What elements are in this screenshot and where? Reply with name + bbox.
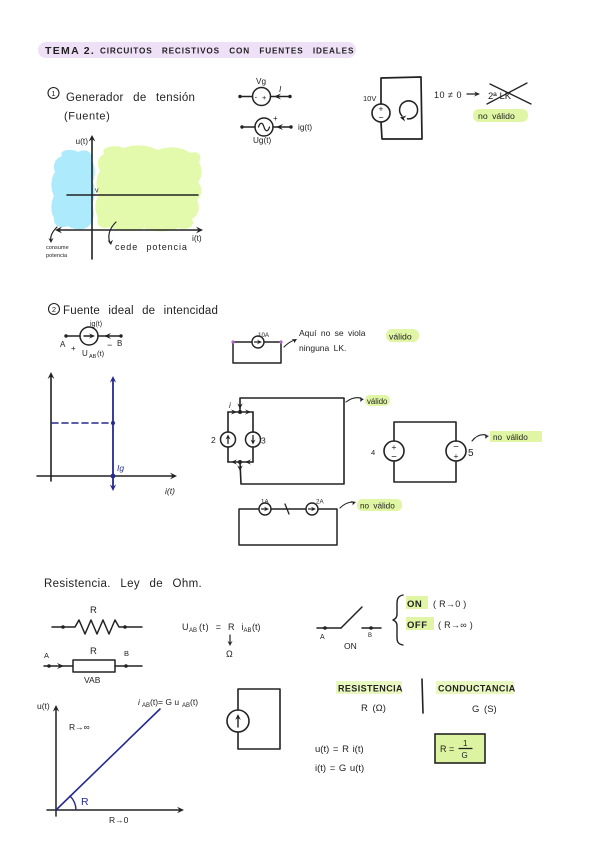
svg-text:2A: 2A bbox=[316, 499, 324, 506]
svg-text:U: U bbox=[82, 349, 88, 358]
section 1 marker bbox=[48, 88, 59, 99]
svg-text:v: v bbox=[95, 188, 99, 195]
svg-text:1A: 1A bbox=[261, 499, 269, 506]
i(t) axis bbox=[55, 227, 203, 243]
svg-text:B: B bbox=[117, 339, 122, 348]
svg-text:A: A bbox=[60, 340, 66, 349]
svg-text:B: B bbox=[368, 633, 372, 639]
current source loop circuit (bottom) bbox=[227, 689, 280, 749]
series current sources circuit bbox=[239, 504, 337, 545]
svg-text:i(t): i(t) bbox=[165, 486, 175, 496]
svg-text:AB: AB bbox=[142, 703, 150, 709]
svg-text:i(t): i(t) bbox=[192, 233, 202, 243]
svg-text:G: G bbox=[462, 751, 468, 760]
svg-text:no válido: no válido bbox=[360, 502, 395, 511]
current source 2 (up arrow) bbox=[211, 432, 236, 447]
no valido highlight 2 bbox=[472, 431, 542, 442]
svg-text:OFF: OFF bbox=[407, 620, 428, 631]
V level line bbox=[67, 188, 198, 196]
current source 1A bbox=[259, 499, 271, 516]
svg-text:2: 2 bbox=[211, 435, 216, 445]
svg-text:4: 4 bbox=[371, 448, 375, 457]
consume potencia label bbox=[46, 227, 69, 259]
svg-text:Resistencia. Ley de Ohm.: Resistencia. Ley de Ohm. bbox=[44, 578, 202, 590]
svg-text:A: A bbox=[44, 651, 49, 660]
svg-text:10V: 10V bbox=[363, 94, 376, 103]
svg-text:+: + bbox=[392, 442, 397, 452]
u(t) axis bbox=[76, 135, 96, 259]
svg-text:1: 1 bbox=[51, 89, 55, 98]
brace bbox=[393, 595, 403, 645]
svg-text:u(t) = R i(t): u(t) = R i(t) bbox=[315, 744, 364, 755]
current source symbol ig(t) bbox=[60, 321, 123, 360]
svg-text:+: + bbox=[262, 93, 267, 102]
svg-text:10A: 10A bbox=[258, 332, 270, 339]
svg-text:R→∞: R→∞ bbox=[69, 722, 90, 732]
svg-text:( R→0 ): ( R→0 ) bbox=[433, 599, 467, 609]
svg-text:R (Ω): R (Ω) bbox=[361, 703, 386, 714]
svg-text:ON: ON bbox=[407, 599, 422, 610]
heading Resistencia Ley de Ohm bbox=[44, 578, 202, 590]
svg-text:(t) = R i: (t) = R i bbox=[199, 622, 244, 632]
annotation 10 neq 0 bbox=[434, 83, 531, 104]
svg-text:potencia: potencia bbox=[46, 253, 68, 259]
svg-text:AB: AB bbox=[89, 354, 97, 360]
svg-text:1: 1 bbox=[463, 739, 468, 748]
svg-text:VAB: VAB bbox=[84, 675, 101, 685]
svg-text:−: − bbox=[391, 452, 397, 463]
cede potencia label bbox=[108, 222, 188, 252]
svg-text:Ug(t): Ug(t) bbox=[253, 136, 271, 145]
current source 3 (down arrow) bbox=[246, 432, 267, 447]
svg-text:(t): (t) bbox=[190, 697, 198, 707]
svg-text:Aquí no se viola: Aquí no se viola bbox=[299, 328, 366, 338]
svg-text:2: 2 bbox=[52, 305, 56, 314]
no valido highlight 1 bbox=[473, 109, 528, 122]
annotation aqui no se viola bbox=[284, 328, 366, 353]
switch symbol bbox=[317, 607, 381, 651]
svg-text:G (S): G (S) bbox=[472, 704, 497, 715]
svg-text:(t)= G u: (t)= G u bbox=[150, 697, 179, 707]
ON (R->0) bbox=[406, 596, 467, 610]
i = G u line (blue) bbox=[56, 697, 198, 810]
svg-text:-: - bbox=[255, 93, 258, 102]
title highlight bar bbox=[38, 42, 356, 58]
svg-text:CIRCUITOS RECISTIVOS CON FUENT: CIRCUITOS RECISTIVOS CON FUENTES IDEALES bbox=[100, 47, 354, 56]
svg-text:(t): (t) bbox=[252, 622, 261, 632]
heading Generador de tension bbox=[64, 92, 195, 123]
svg-text:−: − bbox=[107, 340, 112, 350]
svg-text:válido: válido bbox=[389, 332, 412, 342]
svg-text:i(t) = G u(t): i(t) = G u(t) bbox=[315, 763, 364, 774]
RESISTENCIA header bbox=[336, 681, 403, 714]
opposing voltage sources circuit bbox=[394, 422, 456, 482]
svg-text:cede potencia: cede potencia bbox=[115, 242, 188, 252]
CONDUCTANCIA header bbox=[436, 681, 516, 715]
svg-text:Generador de tensión: Generador de tensión bbox=[66, 92, 195, 104]
svg-text:AB: AB bbox=[189, 628, 197, 634]
svg-text:i: i bbox=[138, 697, 141, 707]
section 2 marker bbox=[49, 304, 60, 315]
OFF (R->inf) bbox=[406, 617, 473, 631]
svg-text:(Fuente): (Fuente) bbox=[64, 111, 110, 123]
svg-text:Ig: Ig bbox=[117, 463, 124, 473]
valido highlight 1 bbox=[386, 329, 419, 342]
AC source Ug(t) bbox=[240, 114, 312, 145]
svg-text:(t): (t) bbox=[97, 349, 105, 358]
Ig characteristic (blue) bbox=[52, 376, 124, 491]
svg-text:B: B bbox=[124, 649, 129, 658]
10A loop circuit bbox=[231, 332, 282, 363]
no valido highlight 3 bbox=[340, 499, 402, 511]
svg-text:A: A bbox=[320, 634, 325, 641]
svg-text:RESISTENCIA: RESISTENCIA bbox=[338, 684, 403, 694]
svg-text:( R→∞ ): ( R→∞ ) bbox=[438, 620, 473, 630]
svg-text:válido: válido bbox=[367, 397, 388, 406]
current source 2A bbox=[306, 499, 324, 516]
svg-text:CONDUCTANCIA: CONDUCTANCIA bbox=[438, 684, 516, 694]
svg-text:10 ≠ 0: 10 ≠ 0 bbox=[434, 90, 462, 100]
svg-text:+: + bbox=[71, 344, 76, 353]
svg-text:ig(t): ig(t) bbox=[298, 123, 312, 132]
svg-text:R =: R = bbox=[440, 744, 454, 754]
voltage source 4V bbox=[371, 441, 404, 463]
svg-text:AB: AB bbox=[244, 628, 252, 634]
svg-text:R: R bbox=[90, 646, 97, 657]
title text TEMA 2 bbox=[45, 45, 354, 57]
svg-text:+: + bbox=[454, 451, 459, 461]
svg-text:consume: consume bbox=[46, 245, 69, 251]
svg-text:+: + bbox=[273, 114, 278, 123]
svg-text:−: − bbox=[378, 113, 383, 123]
svg-text:Ω: Ω bbox=[226, 649, 233, 659]
svg-text:Vg: Vg bbox=[256, 77, 266, 86]
svg-text:AB: AB bbox=[182, 703, 190, 709]
resistor R (box) with VAB bbox=[44, 646, 142, 685]
svg-text:TEMA 2.: TEMA 2. bbox=[45, 45, 95, 57]
Ohm law formula bbox=[182, 622, 261, 659]
divider bbox=[422, 679, 423, 713]
u = R i formula bbox=[315, 744, 364, 774]
svg-text:I: I bbox=[279, 84, 282, 94]
R = 1/G box bbox=[435, 734, 485, 763]
svg-text:R→0: R→0 bbox=[109, 815, 129, 825]
svg-text:3: 3 bbox=[261, 436, 266, 446]
svg-text:ON: ON bbox=[344, 641, 357, 651]
svg-text:u(t): u(t) bbox=[37, 701, 50, 711]
section 2 graph axes bbox=[37, 372, 177, 496]
svg-text:R: R bbox=[81, 796, 89, 808]
heading Fuente ideal de intencidad bbox=[63, 305, 218, 317]
u-i graph (Ohm) axes bbox=[37, 701, 184, 825]
svg-text:U: U bbox=[182, 622, 189, 632]
cede region (green blob) bbox=[95, 145, 201, 231]
svg-text:i: i bbox=[229, 401, 231, 410]
consume region (blue blob) bbox=[51, 150, 94, 229]
valido highlight 2 bbox=[346, 395, 390, 406]
voltage source 5V bbox=[446, 441, 474, 461]
svg-text:Fuente ideal de intencidad: Fuente ideal de intencidad bbox=[63, 305, 218, 317]
resistor R (zigzag) bbox=[52, 605, 142, 634]
voltage source Vg bbox=[238, 77, 291, 106]
parallel current sources circuit bbox=[228, 398, 344, 484]
10V source loop circuit bbox=[363, 77, 422, 139]
svg-text:R: R bbox=[90, 605, 97, 616]
svg-text:5: 5 bbox=[468, 448, 474, 459]
svg-text:no válido: no válido bbox=[478, 111, 515, 121]
svg-text:no válido: no válido bbox=[493, 433, 528, 442]
svg-text:ninguna LK.: ninguna LK. bbox=[299, 343, 346, 353]
svg-text:u(t): u(t) bbox=[76, 136, 89, 146]
